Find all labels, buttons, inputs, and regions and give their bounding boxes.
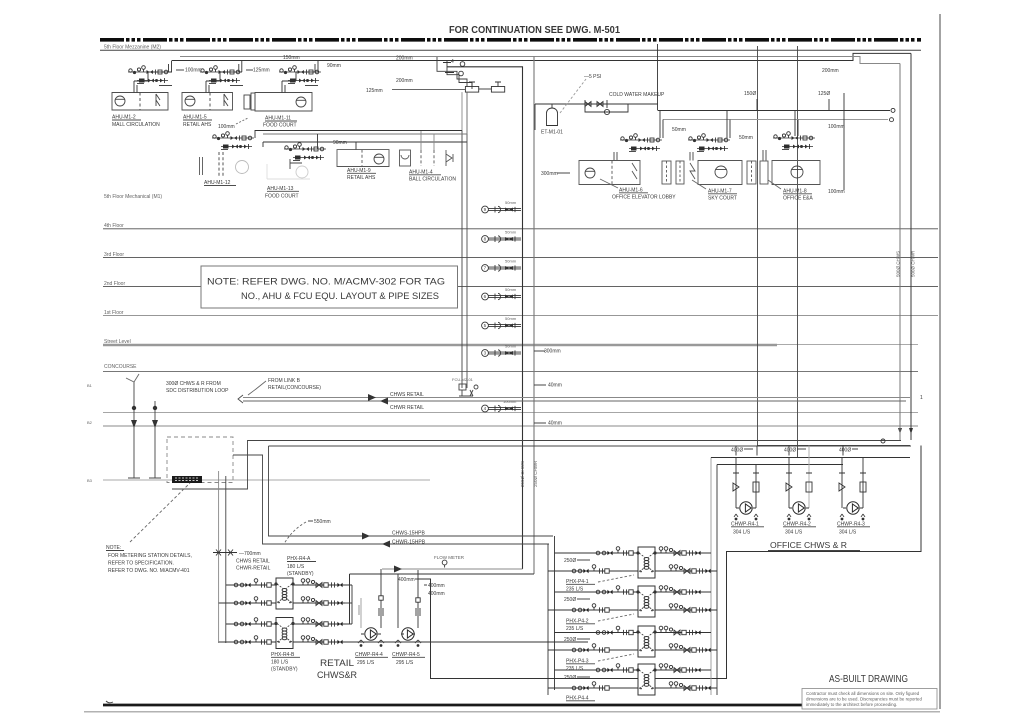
svg-text:ET-M1-01: ET-M1-01 — [541, 130, 563, 136]
svg-text:NO., AHU & FCU EQU. LAYOUT & P: NO., AHU & FCU EQU. LAYOUT & PIPE SIZES — [241, 291, 439, 301]
svg-text:200mm: 200mm — [396, 78, 413, 84]
svg-text:OFFICE CHWS & R: OFFICE CHWS & R — [770, 540, 847, 550]
svg-text:Contractor must check all dime: Contractor must check all dimensions on … — [806, 691, 920, 696]
svg-text:RETAIL: RETAIL — [320, 658, 354, 669]
svg-text:235 L/S: 235 L/S — [566, 666, 584, 672]
svg-text:(STANDBY): (STANDBY) — [287, 571, 314, 577]
svg-text:150Ø: 150Ø — [744, 91, 756, 97]
svg-text:304 L/S: 304 L/S — [733, 530, 751, 536]
svg-text:400mm: 400mm — [398, 577, 415, 583]
svg-text:CHWR-RETAIL: CHWR-RETAIL — [236, 566, 271, 572]
svg-text:125Ø: 125Ø — [818, 91, 830, 97]
svg-text:304 L/S: 304 L/S — [839, 530, 857, 536]
svg-text:50mm: 50mm — [505, 230, 517, 235]
svg-text:250Ø: 250Ø — [564, 558, 576, 564]
svg-text:100mm: 100mm — [828, 189, 845, 195]
svg-text:RETAIL AHS: RETAIL AHS — [183, 122, 212, 128]
svg-text:FOOD COURT: FOOD COURT — [263, 123, 297, 129]
svg-text:CHWR RETAIL: CHWR RETAIL — [390, 405, 424, 411]
svg-text:CHWS RETAIL: CHWS RETAIL — [390, 392, 424, 398]
svg-text:300mm: 300mm — [544, 349, 561, 355]
svg-text:90mm: 90mm — [333, 140, 347, 146]
svg-text:MALL CIRCULATION: MALL CIRCULATION — [112, 122, 160, 128]
svg-text:RETAIL AHS: RETAIL AHS — [347, 175, 376, 181]
svg-text:250Ø CHWR: 250Ø CHWR — [533, 460, 538, 487]
svg-text:100mm: 100mm — [503, 399, 517, 404]
svg-text:FOR CONTINUATION SEE DWG. M-50: FOR CONTINUATION SEE DWG. M-501 — [449, 25, 620, 36]
svg-text:300mm: 300mm — [541, 171, 558, 177]
svg-text:dimensions are to be used. Dis: dimensions are to be used. Discrepancies… — [806, 697, 922, 702]
svg-text:250Ø: 250Ø — [564, 637, 576, 643]
svg-text:(STANDBY): (STANDBY) — [271, 667, 298, 673]
svg-text:50mm: 50mm — [739, 135, 753, 141]
svg-text:4th Floor: 4th Floor — [104, 223, 124, 229]
svg-text:180 L/S: 180 L/S — [271, 660, 289, 666]
svg-text:FROM LINK B: FROM LINK B — [268, 378, 301, 384]
svg-text:50mm: 50mm — [505, 200, 517, 205]
svg-text:100mm: 100mm — [218, 124, 235, 130]
svg-text:295 L/S: 295 L/S — [357, 660, 375, 666]
svg-text:250Ø: 250Ø — [564, 597, 576, 603]
svg-text:400Ø: 400Ø — [731, 448, 743, 454]
svg-text:50mm: 50mm — [505, 316, 517, 321]
svg-text:CHWS-15HPB: CHWS-15HPB — [392, 531, 425, 537]
svg-text:200mm: 200mm — [822, 68, 839, 74]
svg-text:90mm: 90mm — [327, 63, 341, 69]
svg-text:B3: B3 — [87, 478, 93, 483]
svg-text:FLOW METER: FLOW METER — [434, 555, 465, 560]
svg-text:400mm: 400mm — [428, 583, 445, 589]
svg-text:150mm: 150mm — [283, 55, 300, 61]
svg-text:40mm: 40mm — [548, 383, 562, 389]
svg-text:OFFICE E&A: OFFICE E&A — [783, 196, 813, 202]
svg-text:SKY COURT: SKY COURT — [708, 196, 737, 202]
svg-text:CONCOURSE: CONCOURSE — [104, 364, 137, 370]
svg-text:AS-BUILT DRAWING: AS-BUILT DRAWING — [829, 673, 908, 685]
svg-text:235 L/S: 235 L/S — [566, 626, 584, 632]
svg-text:4: 4 — [451, 59, 454, 65]
svg-text:SDC DISTRIBUTION LOOP: SDC DISTRIBUTION LOOP — [166, 388, 229, 394]
svg-text:50mm: 50mm — [505, 259, 517, 264]
svg-text:400mm: 400mm — [428, 591, 445, 597]
svg-text:1st Floor: 1st Floor — [104, 310, 124, 316]
svg-text:RETAIL(CONCOURSE): RETAIL(CONCOURSE) — [268, 385, 321, 391]
svg-text:REFER TO DWG. NO. M/ACMV-401: REFER TO DWG. NO. M/ACMV-401 — [108, 568, 190, 574]
svg-text:BALL CIRCULATION: BALL CIRCULATION — [409, 177, 456, 183]
svg-text:250Ø: 250Ø — [564, 675, 576, 681]
svg-text:100mm: 100mm — [185, 68, 202, 74]
svg-text:550mm: 550mm — [314, 519, 331, 525]
svg-text:125mm: 125mm — [253, 68, 270, 74]
svg-text:1: 1 — [920, 395, 923, 401]
svg-text:REFER TO SPECIFICATION.: REFER TO SPECIFICATION. — [108, 561, 174, 567]
svg-text:COLD WATER MAKEUP: COLD WATER MAKEUP — [609, 92, 665, 98]
svg-text:125mm: 125mm — [366, 88, 383, 94]
svg-text:OFFICE ELEVATOR LOBBY: OFFICE ELEVATOR LOBBY — [612, 195, 676, 201]
svg-text:—700mm: —700mm — [239, 551, 261, 557]
svg-text:50mm: 50mm — [672, 127, 686, 133]
svg-text:5th Floor Mechanical (M1): 5th Floor Mechanical (M1) — [104, 194, 162, 200]
svg-text:304 L/S: 304 L/S — [785, 530, 803, 536]
svg-text:—5 PSI: —5 PSI — [584, 74, 601, 80]
svg-text:40mm: 40mm — [548, 421, 562, 427]
svg-text:NOTE: REFER DWG. NO. M/ACMV-30: NOTE: REFER DWG. NO. M/ACMV-302 FOR TAG — [207, 277, 445, 287]
svg-text:B2: B2 — [87, 420, 93, 425]
svg-text:100mm: 100mm — [828, 124, 845, 130]
svg-text:400Ø: 400Ø — [784, 448, 796, 454]
svg-text:50mm: 50mm — [505, 287, 517, 292]
svg-text:295 L/S: 295 L/S — [396, 660, 414, 666]
svg-text:50mm: 50mm — [505, 344, 517, 349]
svg-text:250Ø CHWS: 250Ø CHWS — [520, 461, 525, 487]
svg-text:200mm: 200mm — [396, 56, 413, 62]
svg-text:CHWS RETAIL: CHWS RETAIL — [236, 559, 270, 565]
svg-text:FOR METERING STATION DETAILS,: FOR METERING STATION DETAILS, — [108, 553, 192, 559]
svg-text:500Ø CHWR: 500Ø CHWR — [911, 250, 916, 277]
svg-text:FCU-M2-01: FCU-M2-01 — [452, 377, 474, 382]
svg-text:immediately to the architect b: immediately to the architect before proc… — [806, 702, 897, 707]
svg-text:3rd Floor: 3rd Floor — [104, 252, 124, 258]
svg-text:CHWS&R: CHWS&R — [317, 670, 357, 681]
svg-text:300Ø CHWS & R FROM: 300Ø CHWS & R FROM — [166, 381, 221, 387]
svg-text:CHWR-15HPB: CHWR-15HPB — [392, 540, 426, 546]
svg-text:5th Floor Mezzanine (M2): 5th Floor Mezzanine (M2) — [104, 44, 161, 50]
svg-text:400Ø: 400Ø — [839, 448, 851, 454]
svg-text:B1: B1 — [87, 383, 93, 388]
svg-text:180 L/S: 180 L/S — [287, 564, 305, 570]
svg-text:FOOD COURT: FOOD COURT — [265, 194, 299, 200]
